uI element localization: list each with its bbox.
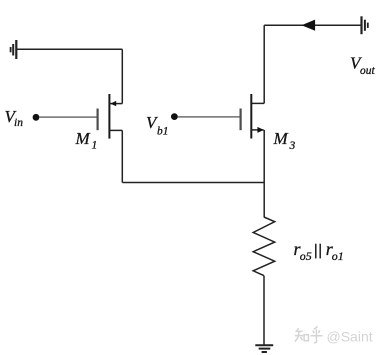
svg-text:M: M <box>273 129 289 148</box>
svg-text:1: 1 <box>92 140 98 152</box>
node Vb1 dot <box>171 113 178 120</box>
arrow current direction <box>302 20 316 31</box>
wire top-left horizontal <box>16 48 122 50</box>
ground top-right <box>362 16 368 34</box>
svg-text:out: out <box>360 65 376 77</box>
svg-text:o1: o1 <box>332 249 344 263</box>
ground top-left <box>11 40 17 59</box>
wire M1 source vertical <box>121 130 123 182</box>
svg-text:@Saint: @Saint <box>327 329 373 345</box>
transistor M3 <box>241 94 265 139</box>
wire bottom horizontal <box>122 182 264 184</box>
wire Vb1 to M3 gate <box>178 116 240 118</box>
wire M1 drain vertical <box>121 49 123 103</box>
svg-text:o5: o5 <box>300 249 312 263</box>
wire top-right horizontal <box>264 24 361 26</box>
wire M3 drain vertical <box>263 25 265 103</box>
label ro5 || ro1 <box>294 239 344 263</box>
svg-text:M: M <box>75 129 91 148</box>
svg-text:b1: b1 <box>157 125 169 137</box>
resistor ro5||ro1 <box>253 217 275 276</box>
wire M3 source vertical <box>263 130 265 217</box>
node Vin dot <box>33 114 40 121</box>
watermark zhihu glyphs <box>295 327 323 343</box>
transistor M1 <box>98 94 123 139</box>
wire Vin to M1 gate <box>39 116 97 118</box>
svg-text:in: in <box>14 117 23 129</box>
wire resistor to ground <box>263 276 265 346</box>
ground bottom <box>255 345 273 352</box>
svg-text:3: 3 <box>289 140 296 152</box>
